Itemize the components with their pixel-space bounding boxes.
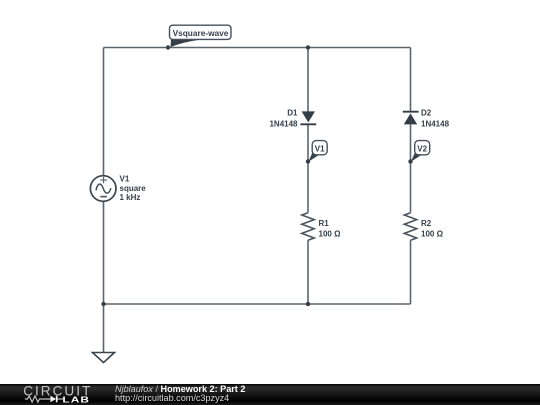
wire bottom net: [104, 303, 411, 305]
ground: [93, 353, 115, 363]
label D2 1N4148: [421, 109, 450, 129]
wire right branch mid (D2 anode to R2): [410, 125, 412, 213]
svg-text:D1: D1: [287, 109, 298, 118]
svg-text:V1: V1: [315, 144, 325, 153]
wire middle branch top (top net to D1 anode): [307, 48, 309, 113]
net flag Vsquare-wave: [166, 25, 231, 50]
diode D1 (anode up, cathode down): [300, 111, 316, 124]
svg-text:1 kHz: 1 kHz: [120, 193, 141, 202]
wire ground stub: [103, 304, 105, 353]
footer credit bar: [0, 384, 540, 405]
node junction bottom net / R1 branch: [306, 302, 310, 306]
net flag V1: [306, 141, 327, 164]
label R1 100 ohm: [319, 219, 342, 239]
resistor R1: [302, 213, 314, 241]
wire top net from V1 to D2 branch: [104, 47, 411, 49]
wire left branch lower (V1 source down to bottom net): [103, 201, 105, 304]
svg-text:V2: V2: [417, 144, 427, 153]
svg-text:1N4148: 1N4148: [421, 120, 450, 129]
node junction top net / D1 branch: [306, 45, 310, 49]
wire right branch bottom (R2 to bottom net): [410, 240, 412, 304]
svg-text:R2: R2: [421, 219, 432, 228]
svg-text:square: square: [120, 184, 147, 193]
diode D2 (cathode up, anode down): [403, 112, 419, 125]
label D1 1N4148: [269, 109, 298, 129]
value label V1 square 1 kHz: [120, 175, 147, 203]
label R2 100 ohm: [421, 219, 444, 239]
svg-text:100 Ω: 100 Ω: [319, 229, 342, 238]
svg-text:D2: D2: [421, 109, 432, 118]
svg-text:R1: R1: [319, 219, 330, 228]
wire middle branch bottom (R1 to bottom net): [307, 240, 309, 304]
node junction bottom net / ground stub: [101, 302, 105, 306]
svg-text:LAB: LAB: [62, 396, 90, 405]
svg-text:V1: V1: [120, 175, 130, 184]
wire middle branch mid (D1 cathode to R1): [307, 125, 309, 213]
wire left branch upper (top net down to V1 source): [103, 48, 105, 177]
voltage source V1: [90, 176, 116, 202]
net flag V2: [408, 141, 429, 164]
wire right branch top (top net to D2 cathode): [410, 48, 412, 113]
svg-text:1N4148: 1N4148: [269, 120, 298, 129]
CircuitLab logo: [0, 384, 100, 405]
svg-text:100 Ω: 100 Ω: [421, 229, 444, 238]
resistor R2: [404, 213, 416, 241]
svg-text:Vsquare-wave: Vsquare-wave: [173, 28, 229, 38]
